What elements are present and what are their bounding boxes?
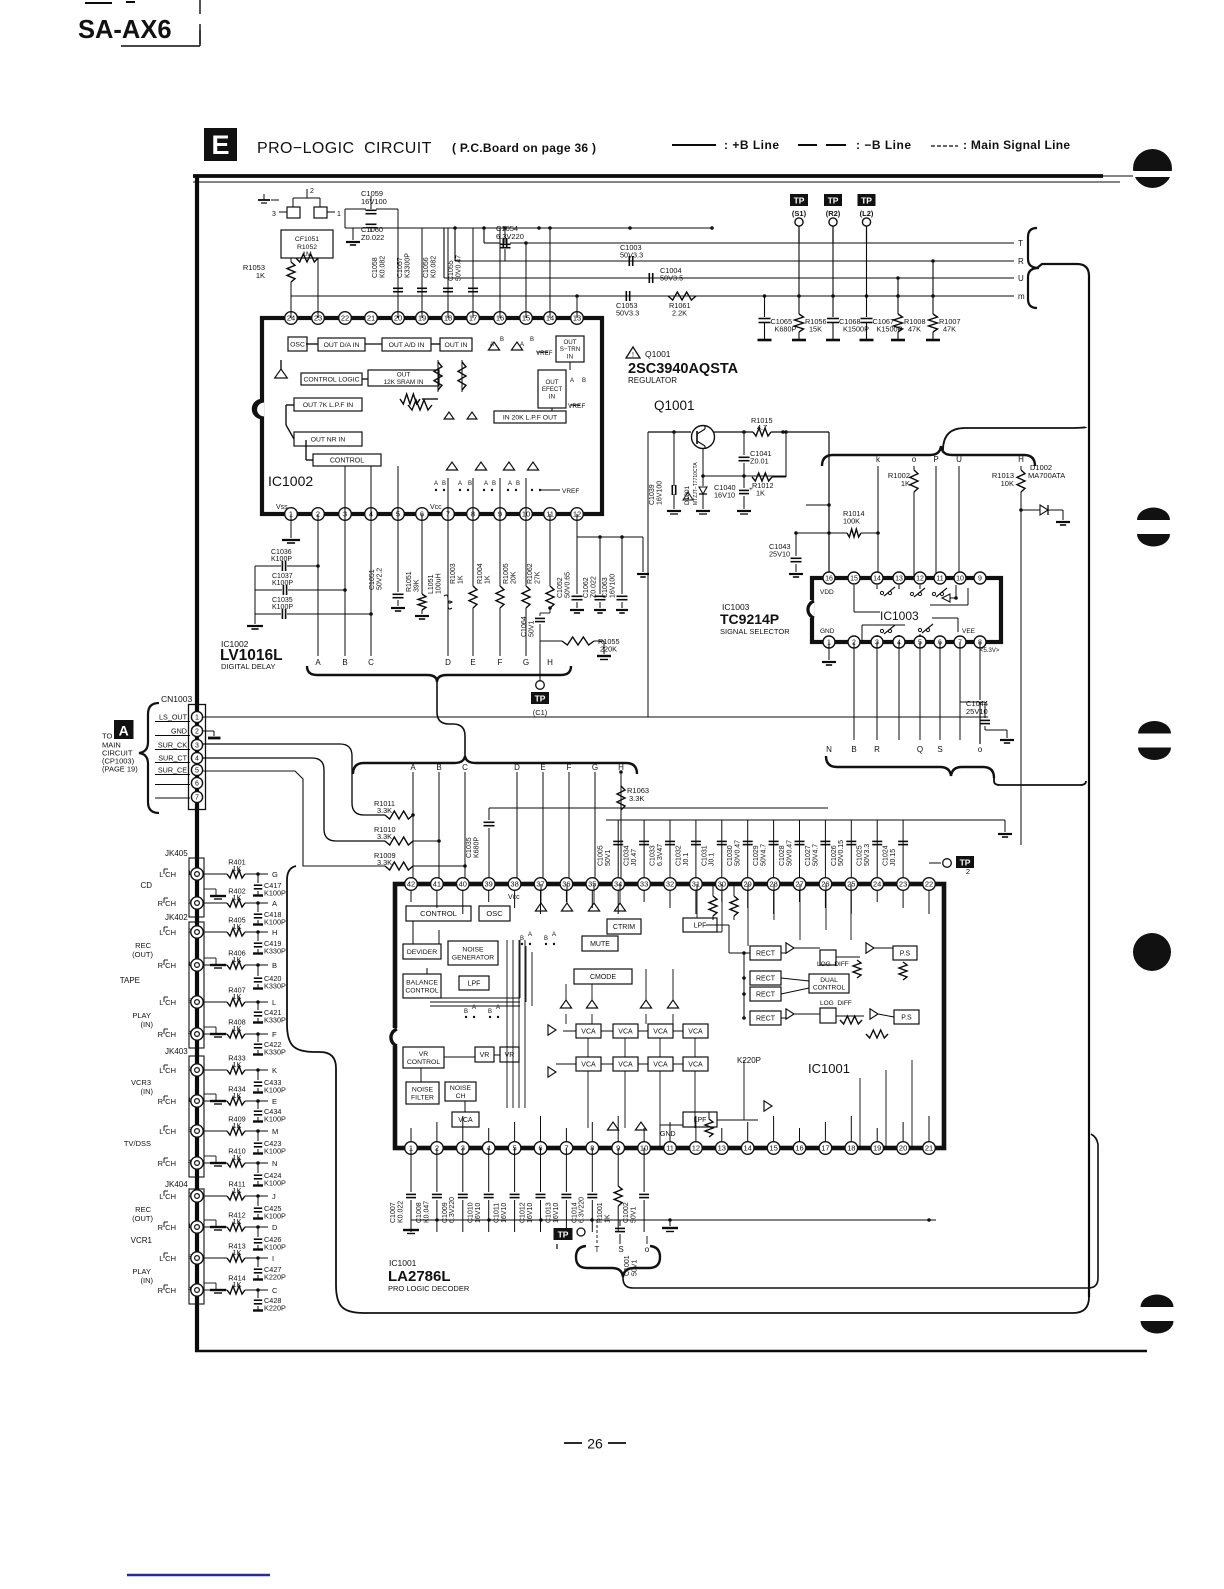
wire column x439 to IC1001 — [438, 772, 440, 884]
svg-text:GND: GND — [660, 1131, 676, 1138]
svg-text:50V3.5: 50V3.5 — [660, 274, 683, 283]
wire pin16 column — [806, 432, 831, 578]
IC1002 pin 19 — [416, 312, 429, 325]
wire bus top connector — [1037, 264, 1089, 276]
jack ground stub — [204, 1027, 226, 1037]
IC1002 pin 15 — [520, 312, 533, 325]
svg-text:C1005: C1005 — [598, 845, 605, 866]
svg-text:3.3K: 3.3K — [629, 794, 644, 803]
svg-text:(OUT): (OUT) — [132, 1214, 153, 1223]
svg-text:VCA: VCA — [581, 1028, 596, 1035]
capacitor C1060 Z0.022 — [361, 224, 384, 242]
IC1002 pin3 line B — [344, 514, 346, 656]
svg-text:o: o — [912, 455, 917, 464]
capacitor C420 K330P — [253, 965, 286, 991]
svg-text:16: 16 — [795, 1144, 803, 1153]
IC1002 pin 13 — [571, 312, 584, 325]
svg-text:50V2.2: 50V2.2 — [376, 568, 383, 590]
OUT 7K LPF IN box — [294, 398, 362, 411]
resistor R1011 3.3K — [374, 799, 415, 819]
svg-text:SUR_CK: SUR_CK — [158, 741, 187, 750]
svg-text:C1037: C1037 — [272, 573, 293, 580]
brace CN1003 — [139, 703, 159, 813]
capacitor C422 K330P — [253, 1034, 286, 1057]
IC1001 pin 35 — [586, 878, 599, 891]
svg-text:B: B — [464, 1009, 468, 1015]
svg-text:K1500P: K1500P — [843, 325, 869, 334]
svg-text:2.2K: 2.2K — [672, 309, 687, 318]
OUT 12K SRAM IN box — [368, 370, 439, 386]
capacitor C1003 50V3.3 — [620, 243, 643, 266]
svg-text:C1035: C1035 — [466, 837, 473, 858]
svg-text:B: B — [468, 481, 472, 487]
test point TP2 — [929, 856, 974, 876]
svg-text:K100P: K100P — [264, 1086, 286, 1095]
wire NBRQSo to bus — [994, 778, 1086, 785]
svg-text:VCA: VCA — [618, 1061, 633, 1068]
capacitor C1034 J0.47 — [624, 820, 650, 884]
svg-text:!: ! — [632, 352, 634, 359]
RECT box 1 — [750, 946, 781, 960]
wire IC1002 pin1 gnd — [282, 514, 300, 543]
IC1001 pin 30 — [716, 878, 729, 891]
IC1001 pin 6 — [534, 1142, 547, 1155]
VCA box r1c1 — [613, 1057, 638, 1071]
svg-text:6.3V220: 6.3V220 — [449, 1197, 456, 1223]
wire column x465 to IC1001 — [464, 772, 466, 884]
IC1001 pin 37 — [534, 878, 547, 891]
IC1001 internal wires 3 — [705, 884, 772, 1137]
diode D1002 MA700ATA — [1019, 463, 1070, 525]
IC1002 pin 20 — [392, 312, 405, 325]
CN1003 pin 3 SUR_CK — [155, 739, 203, 750]
svg-text:( P.C.Board on page 36 ): ( P.C.Board on page 36 ) — [452, 141, 596, 155]
svg-text:F: F — [272, 1030, 277, 1039]
resistor R1052 zig — [296, 254, 318, 318]
capacitor C1041 Z0.01 — [739, 432, 772, 476]
svg-text:J0.1: J0.1 — [709, 853, 716, 866]
svg-text:VCA: VCA — [653, 1061, 668, 1068]
svg-text:220K: 220K — [600, 645, 617, 654]
IC1003 pin 4 — [893, 636, 905, 648]
svg-text:C1055: C1055 — [448, 260, 455, 281]
svg-text:25V10: 25V10 — [769, 550, 790, 559]
resistor R1005 20K — [503, 514, 530, 656]
svg-text:VCR3: VCR3 — [131, 1078, 151, 1087]
IC1003 pin 16 — [823, 572, 835, 584]
svg-text:A: A — [552, 932, 556, 938]
svg-text:3.3K: 3.3K — [377, 832, 392, 841]
wire column x621 to IC1001 — [620, 772, 622, 884]
svg-text:JK403: JK403 — [165, 1047, 188, 1056]
svg-text:47K: 47K — [908, 325, 921, 334]
wire pin24 m — [290, 282, 292, 296]
svg-text:R1051: R1051 — [406, 571, 413, 592]
ground bottom rail mid — [662, 1220, 678, 1232]
IC1002 pin 8 — [467, 508, 480, 521]
MUTE box — [582, 936, 618, 951]
IC1001 pin 1 — [405, 1142, 418, 1155]
resistor R414 1K — [204, 1274, 278, 1296]
IC1001 pin 10 — [638, 1142, 651, 1155]
svg-text:50V1: 50V1 — [605, 850, 612, 866]
svg-text:S−TRN: S−TRN — [560, 346, 580, 353]
OUT D/A IN box — [318, 338, 365, 351]
jack block JK405 — [140, 849, 204, 917]
svg-text:1K: 1K — [901, 479, 910, 488]
capacitor C417 K100P — [253, 874, 286, 898]
svg-text:G: G — [592, 763, 598, 772]
svg-text:25V10: 25V10 — [966, 707, 988, 716]
svg-text:J0.15: J0.15 — [890, 849, 897, 866]
svg-text:R CH: R CH — [158, 1159, 176, 1168]
resistor R433 1K — [204, 1054, 277, 1076]
svg-text:R: R — [1018, 257, 1024, 266]
svg-text:10K: 10K — [1001, 479, 1014, 488]
IC1001 misc inner wires — [660, 884, 912, 1148]
svg-text:26: 26 — [821, 880, 829, 889]
test point TP C1 — [531, 641, 549, 717]
resistor R1008 47K — [891, 296, 926, 340]
LOG DIFF 2 — [820, 1000, 852, 1023]
brace NBRQSo — [826, 756, 994, 778]
svg-text:GND: GND — [171, 727, 187, 736]
capacitor C1005 50V1 — [598, 820, 624, 884]
IC1002 pin 6 — [416, 508, 429, 521]
capacitor C1062 Z0.022 — [583, 537, 606, 613]
svg-text:T: T — [1018, 239, 1023, 248]
svg-text:1: 1 — [195, 715, 199, 722]
wire C103x gnd stem — [247, 566, 263, 629]
DUAL CONTROL box — [809, 974, 849, 993]
IC1003 pin 5 — [914, 636, 926, 648]
IC1002 pin2 line A — [317, 514, 319, 656]
svg-text:14: 14 — [873, 576, 881, 583]
IC1001 pin 3 — [457, 1142, 470, 1155]
ground near CF — [346, 228, 360, 245]
IC1001 pin 31 — [690, 878, 703, 891]
svg-text:S: S — [937, 745, 942, 754]
IC1001 pin 32 — [664, 878, 677, 891]
marker A box — [114, 720, 134, 739]
svg-text:OUT A/D IN: OUT A/D IN — [389, 342, 425, 349]
IC1001 vca column links — [541, 884, 695, 1128]
svg-text:o: o — [645, 1245, 650, 1254]
svg-text:39: 39 — [485, 880, 493, 889]
svg-text:J0.47: J0.47 — [631, 849, 638, 866]
svg-text:34: 34 — [614, 880, 622, 889]
wire m left — [291, 295, 313, 297]
svg-text:Q1001: Q1001 — [654, 398, 695, 413]
svg-text:R1005: R1005 — [503, 563, 510, 584]
svg-text:K0.022: K0.022 — [397, 1201, 404, 1223]
IC1003 pin 13 — [893, 572, 905, 584]
NOISE GENERATOR box — [448, 941, 498, 965]
svg-text:F: F — [498, 658, 503, 667]
LPF box 1 — [459, 976, 489, 990]
capacitor C1028 50V0.47 — [779, 820, 805, 884]
svg-text:TP: TP — [558, 1229, 569, 1239]
svg-text:K100P: K100P — [264, 1115, 286, 1124]
svg-text:TP: TP — [861, 195, 872, 205]
IC1001 pin 19 — [871, 1142, 884, 1155]
model number title SA-AX6 — [78, 0, 200, 46]
capacitor C425 K100P — [253, 1196, 286, 1221]
registration mark right upper — [1137, 507, 1170, 546]
CMODE box — [574, 969, 632, 984]
svg-text:C: C — [368, 658, 374, 667]
svg-text:Z0.022: Z0.022 — [361, 233, 384, 242]
svg-text:SUR_CT: SUR_CT — [158, 754, 187, 763]
svg-text:22: 22 — [925, 880, 933, 889]
svg-text:Vss: Vss — [276, 504, 288, 511]
svg-text:R1062: R1062 — [527, 563, 534, 584]
svg-text:F: F — [567, 763, 572, 772]
svg-text:R1003: R1003 — [450, 563, 457, 584]
svg-text:CONTROL: CONTROL — [420, 909, 457, 918]
IC1002 pin 24 — [285, 312, 298, 325]
capacitor C1040 16V10 — [714, 476, 753, 514]
capacitor C1008 K0.047 — [416, 1148, 442, 1232]
resistor R1015 4.7 — [751, 416, 829, 436]
node letters A-H IC1002 — [315, 658, 553, 667]
svg-text:C1029: C1029 — [753, 845, 760, 866]
svg-text:R CH: R CH — [158, 961, 176, 970]
svg-text:1K: 1K — [756, 489, 765, 498]
svg-text:50V0.15: 50V0.15 — [838, 840, 845, 866]
VCA box bl — [452, 1112, 479, 1127]
svg-text:33: 33 — [640, 880, 648, 889]
svg-text:36: 36 — [562, 880, 570, 889]
IC1003 labels — [820, 589, 1000, 654]
svg-text:21: 21 — [367, 314, 375, 323]
resistor R1010 3.3K — [374, 825, 441, 845]
IC1002 part label — [220, 639, 283, 671]
page number 26 — [564, 1436, 626, 1452]
svg-text:A: A — [528, 932, 532, 938]
resistor R406 1K — [204, 949, 277, 971]
svg-text:K: K — [272, 1066, 277, 1075]
wire o col stub — [646, 1236, 648, 1244]
svg-text:13: 13 — [895, 576, 903, 583]
svg-text:C1028: C1028 — [779, 845, 786, 866]
capacitor C1025 50V3.3 — [857, 820, 883, 884]
svg-text:PLAY: PLAY — [132, 1267, 151, 1276]
svg-text:A: A — [570, 378, 574, 384]
svg-text:Z0.022: Z0.022 — [590, 576, 597, 598]
capacitor C1033 6.3V47 — [650, 820, 676, 884]
svg-text:23: 23 — [899, 880, 907, 889]
svg-text:9: 9 — [978, 576, 982, 583]
capacitor C1053 50V3.3 — [616, 291, 639, 318]
svg-text:N: N — [272, 1159, 277, 1168]
wire m line — [313, 292, 1025, 301]
IC1001 pin 25 — [845, 878, 858, 891]
svg-text:U: U — [956, 455, 962, 464]
capacitor C1056 K0.082 — [423, 228, 453, 318]
svg-text:14: 14 — [744, 1144, 752, 1153]
svg-text:LS_OUT: LS_OUT — [159, 713, 188, 722]
IC1002 pin 7 — [442, 508, 455, 521]
svg-text:VREF: VREF — [562, 488, 579, 495]
CONTROL box — [313, 454, 381, 466]
IC1002 pin 21 — [365, 312, 378, 325]
CN1003 pin 7 — [191, 791, 202, 802]
capacitor C1057 K3300P — [397, 228, 427, 318]
LOG DIFF 1 — [817, 950, 849, 968]
svg-text:OSC: OSC — [486, 909, 503, 918]
capacitor C427 K220P — [253, 1258, 286, 1282]
IC1001 top amps — [535, 903, 625, 911]
CN pin67 stubs — [155, 785, 190, 799]
RECT box 3 — [750, 987, 781, 1001]
svg-text:42: 42 — [407, 880, 415, 889]
svg-text:C1007: C1007 — [390, 1202, 397, 1223]
resistor R1062 27K — [527, 514, 554, 608]
OUT IN box — [440, 338, 472, 351]
capacitor C424 K100P — [253, 1163, 286, 1188]
IC1001 internal wires 1 — [413, 921, 683, 1112]
svg-text:BALANCE: BALANCE — [406, 979, 438, 986]
IC1003 pin 6 — [934, 636, 946, 648]
blue mark line — [127, 1574, 270, 1577]
IC1002 pin 4 — [365, 508, 378, 521]
svg-text:15: 15 — [769, 1144, 777, 1153]
op-amp IC1002 block outline — [253, 318, 602, 514]
resistor R1002 1K — [888, 466, 918, 578]
svg-text:A: A — [484, 481, 488, 487]
wire column x413 to IC1001 — [412, 772, 414, 884]
wire top caps rail — [606, 820, 1012, 837]
svg-text:15K: 15K — [809, 325, 822, 334]
svg-text:3.3K: 3.3K — [377, 806, 392, 815]
IC1001 top pin stubs — [411, 890, 929, 914]
IC1003 pin 12 — [914, 572, 926, 584]
wire CN pin2 gnd — [203, 731, 221, 738]
svg-text:(L2): (L2) — [860, 209, 874, 218]
svg-text:SA-AX6: SA-AX6 — [78, 16, 172, 44]
svg-text:TV/DSS: TV/DSS — [124, 1139, 151, 1148]
svg-text:C1035: C1035 — [272, 597, 293, 604]
svg-text:12K SRAM IN: 12K SRAM IN — [384, 379, 424, 386]
wire column x543 to IC1001 — [542, 772, 544, 884]
svg-text:1K: 1K — [605, 1214, 612, 1223]
svg-text:(C1): (C1) — [533, 708, 548, 717]
svg-text:L CH: L CH — [159, 1066, 176, 1075]
wire Q1001 emitter — [701, 448, 786, 478]
svg-text:<5.3V>: <5.3V> — [980, 648, 1000, 654]
svg-text:B: B — [520, 936, 524, 942]
IC1001 pin 17 — [819, 1142, 832, 1155]
svg-text:3.3K: 3.3K — [377, 858, 392, 867]
IC1001 part label — [388, 1258, 470, 1293]
svg-text:IN: IN — [549, 394, 555, 401]
jack ground stub — [204, 958, 226, 968]
svg-text:12: 12 — [692, 1144, 700, 1153]
svg-text:B: B — [582, 378, 586, 384]
IC1001 pin 27 — [793, 878, 806, 891]
IC1001 pin 20 — [897, 1142, 910, 1155]
svg-text:K330P: K330P — [264, 947, 286, 956]
wire bottom rail — [411, 1218, 936, 1222]
wire IC1003 bottom pin x940 — [939, 642, 941, 740]
IC1001 pin 14 — [741, 1142, 754, 1155]
LPF box 3 — [683, 1112, 717, 1127]
capacitor C433 K100P — [253, 1070, 286, 1095]
svg-text:K330P: K330P — [264, 982, 286, 991]
svg-text:MTZJT−T7710CTA: MTZJT−T7710CTA — [693, 462, 699, 505]
svg-text:K0.082: K0.082 — [379, 256, 386, 278]
svg-text:C1032: C1032 — [675, 845, 682, 866]
svg-text:A: A — [272, 899, 277, 908]
svg-text:C1057: C1057 — [397, 257, 404, 278]
capacitor C1058 K0.082 — [372, 228, 403, 318]
svg-text:N: N — [826, 745, 832, 754]
wire IC1003 bottom pin x920 — [919, 642, 921, 740]
IC1001 pin 23 — [897, 878, 910, 891]
legend +B line — [672, 138, 780, 152]
resistor R434 1K — [204, 1085, 277, 1107]
IC1001 pin 13 — [716, 1142, 729, 1155]
svg-text:OUT NR IN: OUT NR IN — [311, 436, 346, 443]
svg-text:NOISE: NOISE — [450, 1085, 472, 1092]
svg-text:50V0.47: 50V0.47 — [455, 255, 462, 281]
svg-text:(S1): (S1) — [792, 209, 807, 218]
svg-text:CMODE: CMODE — [590, 974, 616, 981]
svg-text:IN: IN — [567, 354, 573, 361]
node letters NBRQSo — [826, 745, 983, 754]
CN1003 pin 5 SUR_CE — [155, 764, 203, 775]
svg-text:TP: TP — [535, 693, 546, 703]
svg-text:6: 6 — [195, 781, 199, 788]
resistor R1004 1K — [477, 514, 504, 656]
wire pin13 up — [575, 294, 579, 318]
IC1001 pin 41 — [431, 878, 444, 891]
svg-text:16: 16 — [825, 576, 833, 583]
svg-text:m: m — [1018, 292, 1025, 301]
IC1001 Vcc label — [508, 894, 520, 901]
capacitor C1068 K1500P — [826, 296, 869, 340]
svg-text:31: 31 — [692, 880, 700, 889]
capacitor C418 K100P — [253, 903, 286, 927]
wire IC1003 pin1 gnd — [822, 642, 836, 665]
svg-text:5: 5 — [195, 768, 199, 775]
IC1002 Vss Vcc labels — [276, 504, 442, 511]
wire TSo bus corner — [1076, 1134, 1098, 1288]
svg-text:19: 19 — [873, 1144, 881, 1153]
svg-text:RECT: RECT — [756, 975, 776, 982]
resistor R407 1K — [204, 986, 276, 1008]
svg-text:Z0.01: Z0.01 — [750, 457, 769, 466]
svg-text:VR: VR — [480, 1052, 490, 1059]
svg-text:13: 13 — [718, 1144, 726, 1153]
svg-text:OUT 7K L.P.F IN: OUT 7K L.P.F IN — [303, 402, 353, 409]
CTRIM box — [607, 919, 641, 934]
svg-text:50V3.3: 50V3.3 — [864, 844, 871, 866]
wire pin14 up — [548, 226, 552, 318]
NOISE CH box — [445, 1082, 476, 1101]
brace above IC1001 — [353, 756, 637, 774]
IC1001 pin 7 — [560, 1142, 573, 1155]
IC1001 mid amps — [560, 1000, 678, 1008]
capacitor C1012 16V10 — [520, 1148, 546, 1232]
jack ground stub — [204, 1094, 226, 1104]
svg-text:JK405: JK405 — [165, 849, 188, 858]
IC1003 pin 9 — [974, 572, 986, 584]
svg-text:CONTROL: CONTROL — [330, 457, 364, 464]
wire T line — [482, 226, 1023, 248]
CONTROL box IC1001 — [406, 906, 471, 921]
